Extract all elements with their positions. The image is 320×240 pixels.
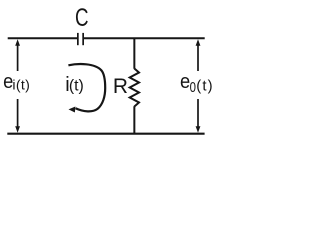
svg-text:C: C	[75, 3, 89, 31]
svg-text:e: e	[180, 70, 190, 93]
svg-text:(t): (t)	[196, 79, 213, 95]
label e_i(t)	[3, 70, 30, 93]
voltage arrow e_0(t) upper (points up at top rail)	[196, 39, 201, 71]
svg-text:(t): (t)	[69, 78, 84, 95]
svg-text:i(t): i(t)	[12, 78, 30, 94]
label i(t)	[65, 74, 84, 96]
svg-text:R: R	[113, 75, 128, 98]
svg-text:0: 0	[190, 78, 196, 95]
wire: resistor branch top	[133, 38, 135, 69]
voltage arrow e_0(t) lower (points down at bottom rail)	[196, 99, 201, 133]
voltage arrow e_i(t) upper (points up at top rail)	[15, 39, 20, 71]
wire: top rail left segment	[8, 37, 78, 39]
label e_0(t)	[180, 70, 214, 95]
current loop arrow i(t)	[68, 64, 105, 112]
wire: bottom rail	[7, 133, 204, 135]
wire: top rail right segment	[84, 37, 205, 39]
capacitor C	[78, 33, 83, 45]
wire: resistor branch bottom	[133, 106, 135, 134]
voltage arrow e_i(t) lower (points down at bottom rail)	[15, 99, 20, 133]
resistor R	[130, 69, 139, 107]
